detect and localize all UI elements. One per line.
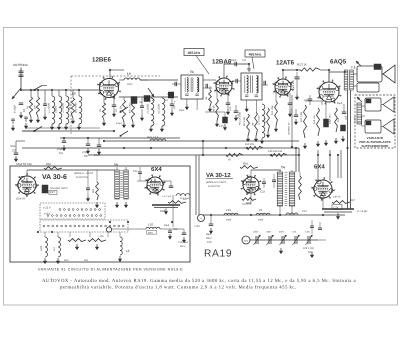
svg-text:10000: 10000 — [55, 106, 58, 113]
svg-text:ALIMENT. 6V: ALIMENT. 6V — [288, 122, 291, 135]
svg-text:C3: C3 — [12, 149, 16, 153]
svg-text:R9 2,2k 1/2W: R9 2,2k 1/2W — [239, 111, 242, 125]
svg-text:470pF: 470pF — [116, 122, 123, 125]
svg-text:C28: C28 — [173, 228, 178, 231]
svg-text:6X4: 6X4 — [314, 164, 325, 171]
svg-text:R13 1/2W: R13 1/2W — [300, 111, 303, 122]
svg-text:R20: R20 — [64, 259, 69, 262]
svg-text:25pF: 25pF — [179, 109, 185, 112]
svg-text:T2: T2 — [247, 68, 251, 72]
svg-text:AUTOVOX - Autoradio mod. Autov: AUTOVOX - Autoradio mod. Autovox RA19. G… — [42, 278, 356, 284]
svg-text:470k: 470k — [264, 117, 267, 123]
svg-text:C4: C4 — [59, 151, 63, 155]
svg-text:455 kHz: 455 kHz — [249, 52, 262, 56]
svg-text:1000: 1000 — [226, 219, 232, 222]
svg-text:1000: 1000 — [258, 219, 264, 222]
svg-text:DI SOTTO): DI SOTTO) — [76, 176, 88, 179]
svg-text:SINTONIA: SINTONIA — [75, 102, 78, 113]
svg-text:SPIA TR 618: SPIA TR 618 — [16, 163, 32, 166]
svg-text:C24: C24 — [302, 210, 307, 213]
svg-text:4 + 4 µF: 4 + 4 µF — [357, 209, 368, 213]
svg-text:T 3: T 3 — [351, 66, 356, 70]
svg-text:40µF: 40µF — [164, 224, 170, 227]
svg-text:L6 10000: L6 10000 — [158, 103, 161, 114]
svg-text:T4: T4 — [281, 166, 285, 170]
svg-text:47k 1/2W: 47k 1/2W — [129, 102, 132, 113]
svg-text:C1: C1 — [22, 108, 26, 112]
svg-text:R20: R20 — [308, 251, 313, 254]
svg-text:L1 10000: L1 10000 — [48, 102, 51, 113]
svg-text:R8 2,2M: R8 2,2M — [243, 117, 246, 126]
svg-text:+12V: +12V — [194, 225, 200, 228]
svg-text:+12V: +12V — [98, 235, 104, 238]
svg-text:1M: 1M — [252, 123, 255, 126]
svg-text:C6: C6 — [84, 154, 88, 158]
svg-text:L5 10000: L5 10000 — [147, 103, 150, 114]
svg-text:DI SOTTO): DI SOTTO) — [208, 185, 220, 188]
svg-text:C20: C20 — [304, 99, 309, 102]
svg-text:VARIANTE AL CIRCUITO DI ALIMEN: VARIANTE AL CIRCUITO DI ALIMENTAZIONE PE… — [38, 268, 183, 272]
svg-text:R7: R7 — [228, 159, 232, 162]
svg-text:PPnF: PPnF — [94, 154, 101, 157]
svg-text:R18: R18 — [243, 163, 248, 166]
svg-text:12BE6: 12BE6 — [92, 57, 111, 64]
svg-text:+: + — [200, 217, 202, 221]
svg-text:140 VA: 140 VA — [333, 196, 341, 199]
svg-text:R17: R17 — [350, 199, 355, 202]
svg-text:12AT6: 12AT6 — [276, 60, 295, 67]
svg-text:1000: 1000 — [266, 231, 272, 234]
svg-text:R10 10M: R10 10M — [271, 106, 274, 115]
svg-text:L8: L8 — [126, 249, 130, 253]
svg-text:GPD: GPD — [244, 240, 249, 243]
svg-text:C13: C13 — [229, 106, 232, 111]
svg-text:T1: T1 — [190, 70, 194, 74]
svg-text:100pF: 100pF — [230, 59, 238, 62]
svg-text:C29 0,5µF: C29 0,5µF — [178, 241, 189, 244]
svg-text:1 x 2 1µF: 1 x 2 1µF — [162, 195, 172, 198]
svg-text:1000: 1000 — [127, 83, 133, 86]
svg-text:50µF: 50µF — [206, 233, 212, 236]
svg-text:ANTENNA: ANTENNA — [13, 63, 29, 67]
svg-text:20µF 25V: 20µF 25V — [292, 80, 295, 90]
svg-text:L3: L3 — [72, 92, 76, 96]
svg-text:o 12 V: o 12 V — [43, 207, 51, 210]
svg-text:R6 68: R6 68 — [213, 105, 216, 112]
svg-text:50CV: 50CV — [206, 237, 212, 240]
svg-text:6X4: 6X4 — [151, 166, 162, 173]
svg-text:1M: 1M — [34, 106, 37, 109]
svg-text:A438: A438 — [40, 245, 43, 251]
svg-text:C24: C24 — [334, 207, 339, 210]
svg-text:VA 30-6: VA 30-6 — [42, 174, 67, 181]
svg-text:L2 10000: L2 10000 — [62, 102, 65, 113]
svg-text:100A: 100A — [253, 231, 259, 234]
svg-text:VA 30-12: VA 30-12 — [206, 172, 231, 179]
svg-text:L10: L10 — [148, 223, 153, 227]
svg-text:L7 10000: L7 10000 — [258, 115, 261, 125]
svg-text:L4: L4 — [127, 72, 131, 76]
svg-text:6-10pF: 6-10pF — [14, 104, 17, 113]
svg-text:L13: L13 — [226, 208, 231, 212]
svg-text:L9: L9 — [259, 208, 263, 212]
svg-text:RA19: RA19 — [204, 249, 232, 260]
svg-text:R23: R23 — [92, 188, 95, 193]
svg-text:C25: C25 — [207, 241, 212, 244]
svg-text:permeabilità variabile. Potenz: permeabilità variabile. Potenza d'uscita… — [60, 285, 297, 291]
svg-text:OZ4 FR: OZ4 FR — [16, 198, 25, 201]
svg-text:455 kHz: 455 kHz — [188, 51, 201, 55]
svg-text:BOBINA: BOBINA — [354, 115, 357, 123]
svg-text:4,4B: 4,4B — [305, 231, 310, 234]
svg-text:C23: C23 — [260, 191, 265, 194]
svg-text:50CV: 50CV — [180, 245, 186, 248]
svg-text:T5: T5 — [114, 163, 118, 167]
svg-text:150 1W: 150 1W — [245, 143, 254, 146]
svg-text:10µF 25V: 10µF 25V — [329, 114, 332, 124]
svg-text:R21: R21 — [84, 259, 89, 262]
svg-text:50µF: 50µF — [337, 102, 343, 105]
svg-text:C15: C15 — [219, 125, 224, 128]
svg-text:0470: 0470 — [279, 231, 285, 234]
svg-text:R14 10k: R14 10k — [313, 115, 316, 124]
svg-text:R19: R19 — [246, 202, 251, 205]
svg-text:425 x 1W: 425 x 1W — [303, 247, 314, 250]
svg-text:140 1W R11: 140 1W R11 — [268, 150, 283, 153]
svg-text:SUPPLEMENTARE: SUPPLEMENTARE — [362, 144, 389, 148]
svg-text:C11: C11 — [242, 59, 247, 62]
svg-text:R13 1k: R13 1k — [297, 63, 307, 67]
svg-text:R15: R15 — [337, 117, 340, 122]
svg-text:C22: C22 — [345, 115, 348, 120]
svg-text:(MODELL. VISTO: (MODELL. VISTO — [74, 172, 93, 175]
svg-text:L12 1 mH: L12 1 mH — [180, 197, 190, 200]
svg-text:C25: C25 — [133, 170, 138, 173]
svg-text:R18: R18 — [46, 163, 51, 166]
svg-text:(MODELLO VISTO: (MODELLO VISTO — [206, 181, 226, 184]
svg-text:6AQ5: 6AQ5 — [330, 59, 347, 66]
svg-text:AVV. LILA: AVV. LILA — [147, 136, 159, 139]
